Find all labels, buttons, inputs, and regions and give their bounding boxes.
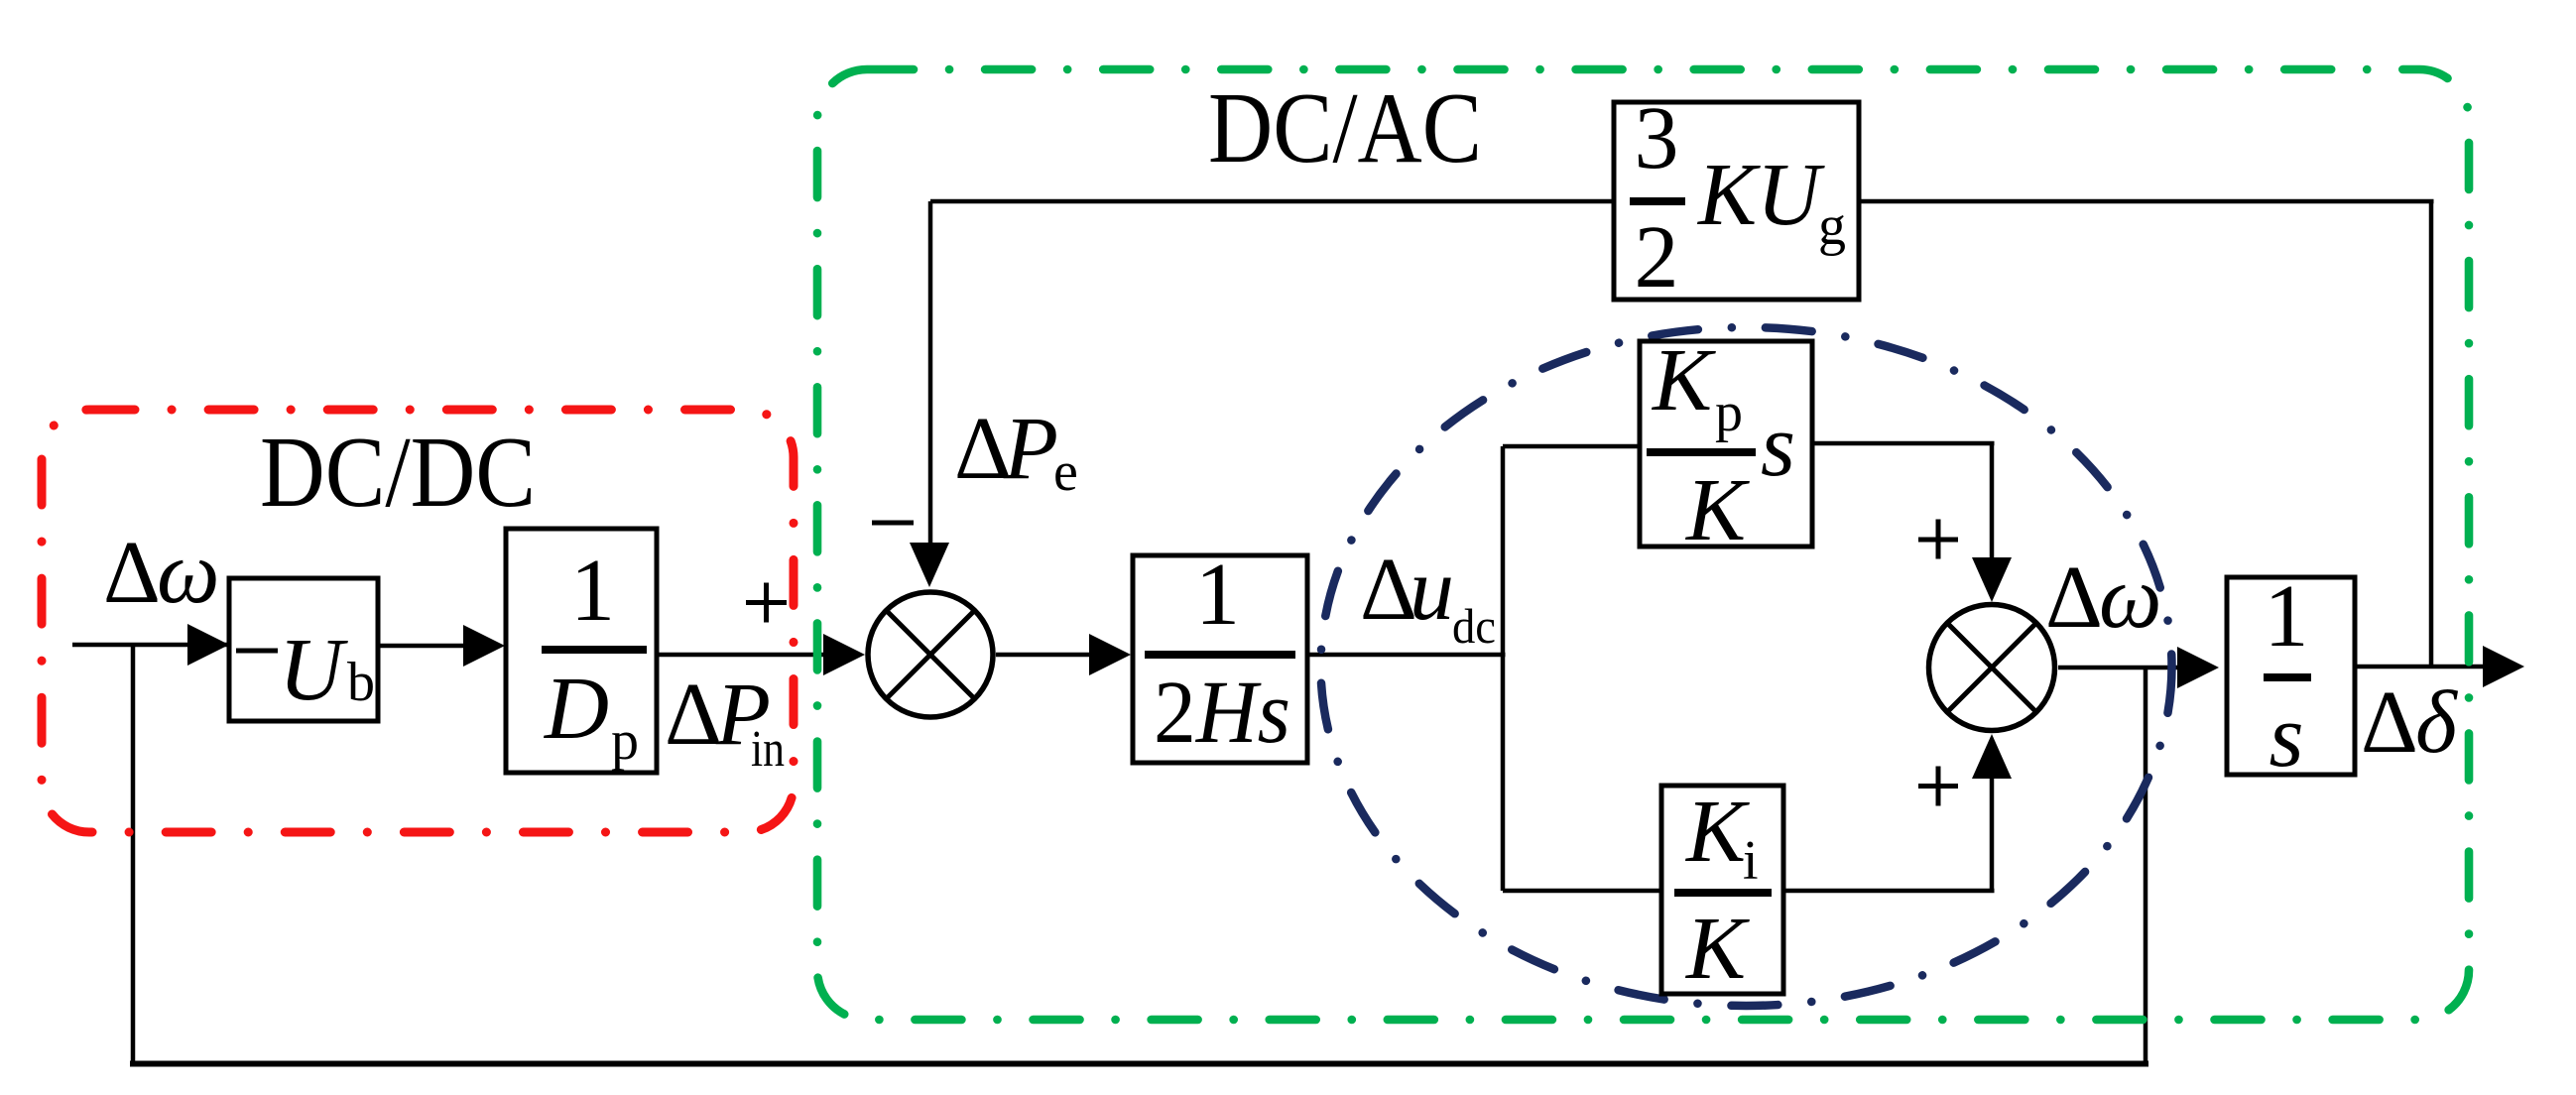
svg-text:ω: ω bbox=[157, 524, 220, 622]
svg-text:e: e bbox=[1053, 441, 1078, 503]
svg-text:D: D bbox=[543, 660, 609, 758]
svg-text:in: in bbox=[751, 721, 785, 778]
svg-text:Δ: Δ bbox=[103, 524, 161, 622]
svg-text:1: 1 bbox=[1195, 546, 1240, 644]
svg-text:u: u bbox=[1410, 541, 1454, 639]
svg-text:i: i bbox=[1743, 830, 1759, 892]
svg-text:dc: dc bbox=[1452, 598, 1496, 654]
svg-text:ω: ω bbox=[2099, 548, 2162, 647]
svg-text:K: K bbox=[1651, 331, 1716, 429]
svg-text:U: U bbox=[279, 621, 348, 719]
svg-text:g: g bbox=[1818, 195, 1846, 257]
svg-text:s: s bbox=[1761, 397, 1795, 495]
svg-text:DC/AC: DC/AC bbox=[1208, 72, 1482, 184]
svg-text:2: 2 bbox=[1635, 208, 1679, 306]
svg-text:Δ: Δ bbox=[2361, 673, 2418, 772]
svg-text:P: P bbox=[1003, 400, 1058, 498]
svg-text:K: K bbox=[1684, 900, 1750, 998]
svg-text:K: K bbox=[1684, 783, 1750, 881]
svg-text:p: p bbox=[611, 710, 639, 772]
svg-text:K: K bbox=[1684, 461, 1750, 559]
svg-text:KU: KU bbox=[1696, 146, 1825, 244]
svg-text:DC/DC: DC/DC bbox=[260, 417, 536, 529]
svg-text:δ: δ bbox=[2415, 673, 2459, 772]
svg-text:1: 1 bbox=[2265, 567, 2309, 666]
svg-text:s: s bbox=[2269, 687, 2303, 786]
svg-text:2Hs: 2Hs bbox=[1154, 664, 1290, 762]
svg-text:p: p bbox=[1715, 382, 1743, 443]
svg-text:1: 1 bbox=[570, 542, 615, 640]
svg-text:Δ: Δ bbox=[2045, 548, 2103, 647]
svg-text:Δ: Δ bbox=[665, 666, 722, 764]
svg-text:b: b bbox=[347, 652, 375, 713]
svg-text:3: 3 bbox=[1635, 89, 1679, 187]
